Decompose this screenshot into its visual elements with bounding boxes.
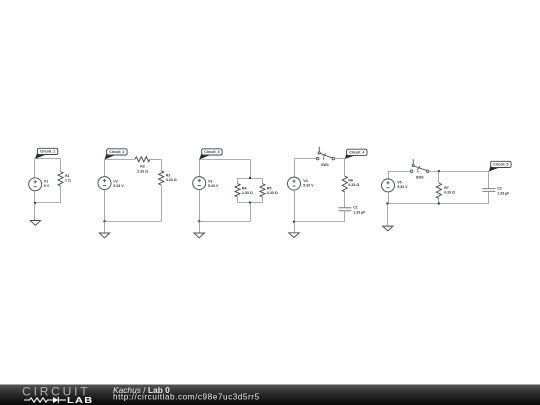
svg-text:SW1: SW1 xyxy=(321,163,329,167)
svg-text:3.33 Ω: 3.33 Ω xyxy=(166,178,177,182)
svg-text:2.33 Ω: 2.33 Ω xyxy=(137,169,148,173)
svg-text:5.33 V: 5.33 V xyxy=(397,185,408,189)
svg-text:C1: C1 xyxy=(353,206,358,210)
svg-text:R1: R1 xyxy=(65,174,70,178)
svg-text:Circuit_2: Circuit_2 xyxy=(109,150,124,154)
svg-text:SW2: SW2 xyxy=(416,175,424,179)
svg-text:V2: V2 xyxy=(113,179,117,183)
svg-text:R6: R6 xyxy=(348,178,353,182)
svg-text:http://circuitlab.com/c98e7uc3: http://circuitlab.com/c98e7uc3d5rr5 xyxy=(113,393,260,402)
svg-text:Circuit_3: Circuit_3 xyxy=(204,150,219,154)
svg-text:V4: V4 xyxy=(303,179,307,183)
svg-text:6.33 Ω: 6.33 Ω xyxy=(348,183,359,187)
svg-text:R4: R4 xyxy=(242,187,247,191)
svg-text:V1: V1 xyxy=(44,179,48,183)
svg-text:1 Ω: 1 Ω xyxy=(65,179,71,183)
svg-text:R2: R2 xyxy=(140,165,145,169)
svg-text:Circuit_1: Circuit_1 xyxy=(40,150,55,154)
svg-text:R5: R5 xyxy=(267,187,272,191)
svg-text:1.33 µF: 1.33 µF xyxy=(497,191,510,195)
svg-text:5.33 V: 5.33 V xyxy=(113,184,124,188)
svg-text:V5: V5 xyxy=(397,181,401,185)
svg-text:Circuit_4: Circuit_4 xyxy=(349,151,364,155)
svg-text:3.33 Ω: 3.33 Ω xyxy=(267,191,278,195)
svg-text:5 V: 5 V xyxy=(44,184,50,188)
svg-text:2.33 Ω: 2.33 Ω xyxy=(242,191,253,195)
svg-text:Circuit_5: Circuit_5 xyxy=(493,163,508,167)
svg-text:V3: V3 xyxy=(208,179,212,183)
svg-text:R3: R3 xyxy=(166,173,171,177)
svg-text:5.33 V: 5.33 V xyxy=(208,184,219,188)
svg-text:C2: C2 xyxy=(497,187,502,191)
svg-text:R7: R7 xyxy=(444,186,449,190)
svg-text:1.33 µF: 1.33 µF xyxy=(353,210,366,214)
svg-text:6.33 Ω: 6.33 Ω xyxy=(444,190,455,194)
svg-text:LAB: LAB xyxy=(67,396,93,405)
svg-text:5.33 V: 5.33 V xyxy=(303,184,314,188)
